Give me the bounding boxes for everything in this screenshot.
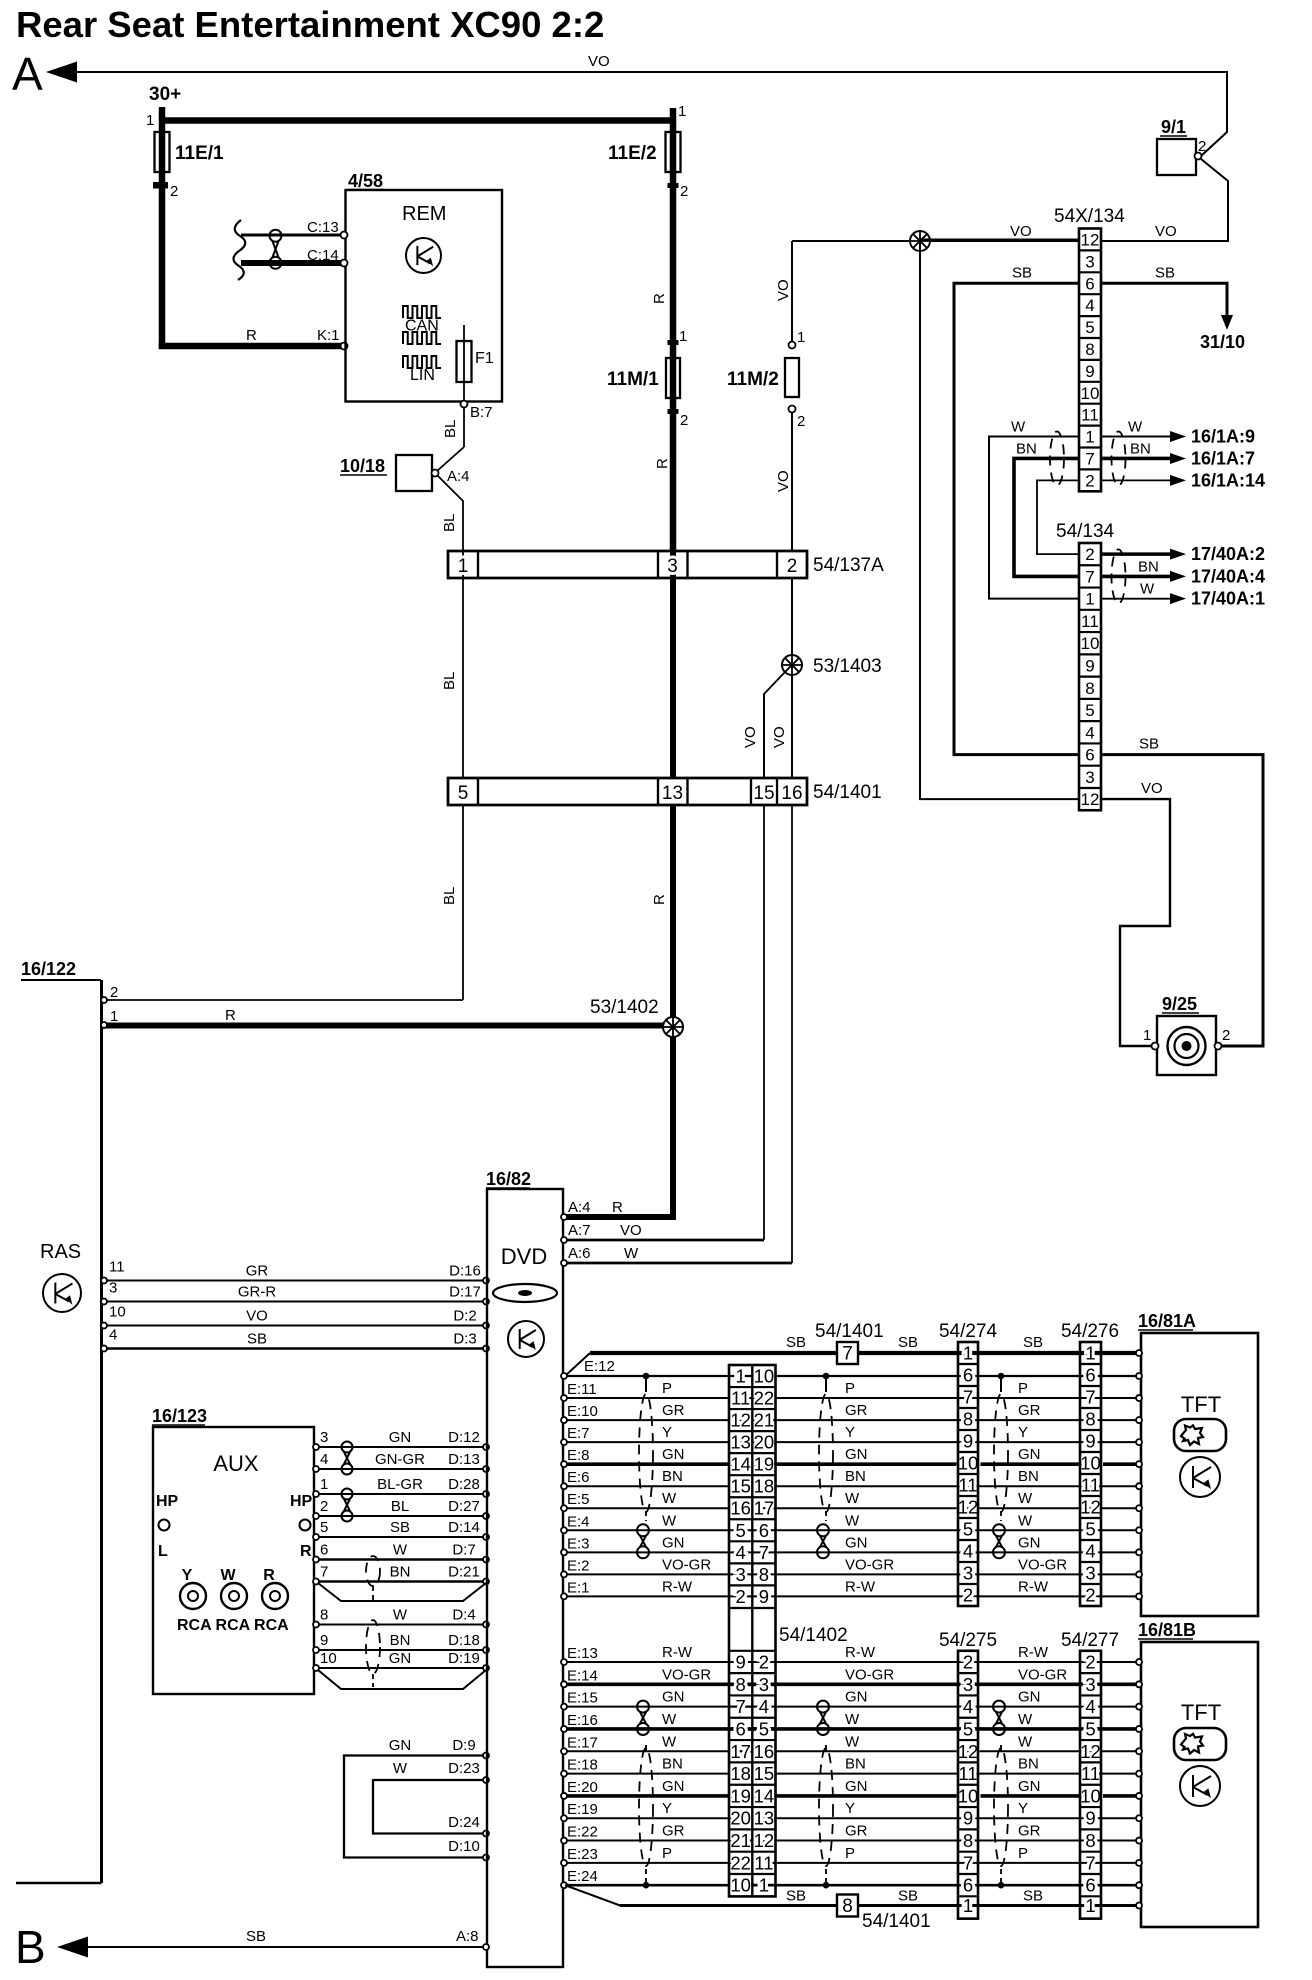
svg-text:1: 1 [458,556,469,577]
svg-text:D:27: D:27 [448,1498,480,1515]
svg-text:P: P [662,1845,672,1862]
svg-text:SB: SB [1012,264,1032,281]
svg-text:7: 7 [963,1852,973,1873]
svg-text:VO: VO [1141,780,1163,797]
svg-text:R-W: R-W [1018,1644,1049,1661]
svg-text:16/82: 16/82 [486,1169,531,1189]
svg-text:14: 14 [730,1454,751,1475]
svg-text:9: 9 [320,1632,328,1649]
svg-text:E:12: E:12 [584,1358,615,1375]
svg-text:12: 12 [1080,1497,1101,1518]
svg-text:Y: Y [1018,1800,1028,1817]
svg-text:E:20: E:20 [567,1779,598,1796]
svg-text:4: 4 [320,1451,328,1468]
svg-text:16/81B: 16/81B [1138,1620,1196,1640]
svg-text:C:14: C:14 [307,247,339,264]
svg-text:16: 16 [754,1741,775,1762]
svg-text:5: 5 [458,783,469,804]
svg-text:BL: BL [442,420,459,438]
svg-text:BN: BN [390,1564,411,1581]
svg-text:W: W [1018,1512,1033,1529]
svg-text:SB: SB [898,1334,918,1351]
svg-text:A:6: A:6 [568,1245,591,1262]
svg-text:2: 2 [1085,1585,1095,1606]
svg-text:8: 8 [759,1564,769,1585]
svg-text:E:5: E:5 [567,1491,590,1508]
svg-text:13: 13 [662,783,683,804]
svg-text:8: 8 [320,1607,328,1624]
svg-text:Y: Y [1018,1424,1028,1441]
svg-text:6: 6 [759,1520,769,1541]
svg-text:SB: SB [1023,1888,1043,1905]
svg-text:D:21: D:21 [448,1564,480,1581]
svg-text:GN-GR: GN-GR [375,1451,425,1468]
svg-text:3: 3 [963,1674,973,1695]
svg-text:22: 22 [730,1852,751,1873]
svg-text:E:1: E:1 [567,1579,590,1596]
svg-text:17: 17 [730,1741,751,1762]
svg-text:D:10: D:10 [448,1838,480,1855]
svg-text:8: 8 [963,1830,973,1851]
svg-text:A:4: A:4 [447,468,470,485]
svg-text:E:11: E:11 [567,1381,597,1398]
svg-text:Y: Y [662,1800,672,1817]
svg-text:SB: SB [1155,264,1175,281]
svg-text:GN: GN [845,1446,868,1463]
svg-text:11: 11 [1081,406,1099,425]
svg-text:54/276: 54/276 [1061,1321,1119,1342]
svg-text:4: 4 [963,1696,973,1717]
svg-text:12: 12 [1081,230,1100,249]
svg-text:REM: REM [402,203,446,225]
svg-text:3: 3 [1085,768,1094,787]
svg-text:W: W [845,1490,860,1507]
svg-text:6: 6 [1085,1875,1095,1896]
svg-text:17/40A:4: 17/40A:4 [1191,566,1265,586]
svg-text:10: 10 [1080,1453,1101,1474]
svg-text:9: 9 [736,1652,746,1673]
svg-text:VO: VO [1155,223,1177,240]
svg-text:E:10: E:10 [567,1403,598,1420]
svg-text:10: 10 [958,1453,979,1474]
svg-text:BL-GR: BL-GR [377,1476,423,1493]
svg-text:R-W: R-W [845,1578,876,1595]
svg-text:W: W [662,1512,677,1529]
svg-text:2: 2 [680,412,688,429]
svg-text:E:6: E:6 [567,1469,590,1486]
svg-text:GN: GN [389,1650,412,1667]
svg-text:E:2: E:2 [567,1557,590,1574]
svg-text:21: 21 [730,1830,751,1851]
svg-text:16/1A:14: 16/1A:14 [1191,470,1265,490]
svg-text:GR: GR [1018,1402,1041,1419]
svg-text:18: 18 [730,1763,751,1784]
svg-text:5: 5 [963,1718,973,1739]
svg-text:11: 11 [1081,1763,1100,1784]
svg-text:54/1402: 54/1402 [779,1625,848,1646]
svg-text:GN: GN [845,1689,868,1706]
svg-text:W: W [1011,419,1026,436]
svg-text:R: R [654,458,671,469]
svg-text:P: P [662,1380,672,1397]
svg-text:R: R [263,1567,275,1584]
svg-text:VO: VO [775,470,792,492]
svg-text:3: 3 [320,1429,328,1446]
svg-text:W: W [624,1245,639,1262]
svg-text:11M/1: 11M/1 [607,369,659,390]
svg-text:16/123: 16/123 [152,1406,207,1426]
svg-text:VO: VO [246,1308,268,1325]
svg-text:L: L [158,1543,168,1560]
svg-text:W: W [393,1542,408,1559]
svg-text:BN: BN [845,1756,866,1773]
svg-text:10: 10 [320,1650,337,1667]
svg-text:GR: GR [1018,1823,1041,1840]
svg-text:8: 8 [736,1674,746,1695]
svg-text:GN: GN [845,1778,868,1795]
svg-text:7: 7 [736,1696,746,1717]
svg-text:12: 12 [1081,790,1100,809]
svg-text:3: 3 [963,1563,973,1584]
svg-text:11: 11 [958,1475,977,1496]
svg-text:GN: GN [662,1778,685,1795]
svg-text:54/1401: 54/1401 [813,782,882,803]
svg-text:54/274: 54/274 [939,1321,998,1342]
svg-text:7: 7 [1085,1852,1095,1873]
svg-text:4: 4 [1085,296,1094,315]
svg-text:VO: VO [771,726,788,748]
svg-text:1: 1 [110,1008,118,1025]
svg-text:5: 5 [1085,1519,1095,1540]
svg-text:R: R [651,293,668,304]
svg-text:R: R [651,894,668,905]
svg-text:9/25: 9/25 [1162,994,1197,1014]
svg-text:11E/2: 11E/2 [608,143,657,164]
svg-text:18: 18 [754,1476,775,1497]
svg-text:3: 3 [1085,1674,1095,1695]
svg-text:5: 5 [1085,1718,1095,1739]
svg-text:13: 13 [730,1432,751,1453]
svg-text:1: 1 [1085,428,1094,447]
svg-text:W: W [662,1711,677,1728]
svg-text:BN: BN [662,1468,683,1485]
svg-text:2: 2 [787,556,798,577]
svg-text:A: A [12,48,43,100]
svg-text:GR: GR [246,1263,269,1280]
svg-text:D:12: D:12 [448,1429,480,1446]
svg-text:GN: GN [845,1534,868,1551]
svg-text:SB: SB [786,1888,806,1905]
svg-text:W: W [1128,419,1143,436]
svg-text:12: 12 [1080,1741,1101,1762]
svg-text:VO-GR: VO-GR [845,1556,894,1573]
svg-text:3: 3 [109,1280,117,1297]
svg-text:SB: SB [898,1888,918,1905]
svg-text:1: 1 [678,103,686,120]
svg-text:9: 9 [1085,362,1094,381]
svg-text:1: 1 [1085,1343,1095,1364]
svg-text:W: W [845,1711,860,1728]
svg-text:W: W [1018,1711,1033,1728]
svg-text:E:18: E:18 [567,1757,598,1774]
svg-text:9: 9 [1085,656,1094,675]
svg-text:D:24: D:24 [448,1814,480,1831]
svg-text:1: 1 [797,329,805,346]
svg-text:E:24: E:24 [567,1868,598,1885]
svg-text:A:4: A:4 [568,1199,591,1216]
svg-text:11: 11 [109,1259,125,1276]
svg-text:54/137A: 54/137A [813,555,884,576]
svg-text:20: 20 [754,1432,775,1453]
svg-text:BN: BN [1016,440,1037,457]
svg-text:BN: BN [1130,440,1151,457]
svg-text:1: 1 [320,1476,328,1493]
svg-text:17: 17 [754,1498,775,1519]
svg-text:GR: GR [845,1402,868,1419]
svg-text:W: W [393,1760,408,1777]
svg-text:BN: BN [845,1468,866,1485]
svg-text:1: 1 [736,1366,746,1387]
svg-text:D:9: D:9 [452,1737,475,1754]
svg-text:16/81A: 16/81A [1138,1311,1196,1331]
svg-text:4/58: 4/58 [348,171,383,191]
svg-text:W: W [662,1733,677,1750]
svg-text:8: 8 [1085,1830,1095,1851]
svg-text:VO: VO [620,1222,642,1239]
svg-text:4: 4 [1085,1541,1095,1562]
svg-text:6: 6 [963,1365,973,1386]
svg-text:1: 1 [679,328,687,345]
svg-text:7: 7 [1085,1387,1095,1408]
svg-text:E:15: E:15 [567,1690,598,1707]
svg-text:10: 10 [958,1785,979,1806]
svg-text:1: 1 [146,112,154,129]
svg-text:10: 10 [754,1366,775,1387]
svg-text:7: 7 [759,1542,769,1563]
svg-text:D:18: D:18 [448,1632,480,1649]
svg-text:BL: BL [391,1498,409,1515]
svg-text:LIN: LIN [410,367,435,384]
svg-text:SB: SB [390,1519,410,1536]
svg-text:6: 6 [963,1875,973,1896]
svg-text:E:17: E:17 [567,1734,598,1751]
svg-text:9: 9 [1085,1431,1095,1452]
svg-text:6: 6 [1085,746,1094,765]
svg-text:8: 8 [1085,1409,1095,1430]
svg-text:R: R [246,327,257,344]
svg-text:BL: BL [441,514,458,532]
svg-text:F1: F1 [475,350,494,367]
svg-text:SB: SB [1139,736,1159,753]
svg-text:W: W [845,1733,860,1750]
svg-text:11: 11 [1081,1475,1100,1496]
svg-text:GN: GN [1018,1778,1041,1795]
svg-text:E:3: E:3 [567,1535,590,1552]
svg-text:GN: GN [662,1446,685,1463]
svg-text:5: 5 [1085,318,1094,337]
svg-text:W: W [393,1607,408,1624]
svg-text:BL: BL [441,887,458,905]
svg-text:3: 3 [667,556,678,577]
svg-text:R: R [300,1543,312,1560]
svg-text:30+: 30+ [149,84,181,105]
svg-text:Y: Y [662,1424,672,1441]
svg-text:5: 5 [963,1519,973,1540]
svg-text:10/18: 10/18 [340,456,385,476]
svg-text:4: 4 [1085,723,1094,742]
svg-text:22: 22 [754,1388,775,1409]
svg-text:19: 19 [730,1785,751,1806]
svg-text:54/275: 54/275 [939,1630,997,1651]
svg-text:VO-GR: VO-GR [662,1556,711,1573]
svg-text:2: 2 [170,183,178,200]
svg-text:Y: Y [845,1424,855,1441]
svg-text:17/40A:2: 17/40A:2 [1191,544,1265,564]
svg-text:31/10: 31/10 [1200,332,1245,352]
svg-text:12: 12 [754,1830,775,1851]
svg-text:E:13: E:13 [567,1645,598,1662]
svg-text:9: 9 [759,1586,769,1607]
svg-text:53/1402: 53/1402 [590,997,659,1018]
svg-text:E:19: E:19 [567,1801,598,1818]
svg-text:2: 2 [1085,545,1094,564]
svg-text:15: 15 [753,783,774,804]
svg-text:Y: Y [845,1800,855,1817]
svg-text:E:4: E:4 [567,1513,590,1530]
svg-text:AUX: AUX [213,1451,259,1476]
svg-text:3: 3 [759,1674,769,1695]
svg-text:A:8: A:8 [456,1928,479,1945]
svg-text:SB: SB [1023,1334,1043,1351]
svg-text:54/134: 54/134 [1056,521,1115,542]
svg-text:C:13: C:13 [307,219,339,236]
svg-text:Y: Y [182,1567,193,1584]
svg-text:2: 2 [110,984,118,1001]
svg-text:HP: HP [156,1493,179,1510]
svg-text:BN: BN [1018,1468,1039,1485]
svg-text:E:14: E:14 [567,1667,598,1684]
svg-text:10: 10 [1081,634,1100,653]
svg-text:15: 15 [730,1476,751,1497]
svg-text:R-W: R-W [662,1644,693,1661]
svg-text:2: 2 [680,183,688,200]
svg-text:5: 5 [736,1520,746,1541]
svg-text:D:2: D:2 [453,1308,476,1325]
svg-text:D:23: D:23 [448,1760,480,1777]
svg-text:1: 1 [963,1895,973,1916]
svg-text:BN: BN [1018,1756,1039,1773]
svg-text:2: 2 [736,1586,746,1607]
svg-text:GR: GR [662,1402,685,1419]
svg-text:R: R [225,1007,236,1024]
svg-text:2: 2 [320,1498,328,1515]
svg-text:K:1: K:1 [317,327,340,344]
svg-text:P: P [845,1380,855,1397]
svg-text:54/1401: 54/1401 [815,1321,884,1342]
svg-text:4: 4 [109,1327,117,1344]
svg-text:GN: GN [1018,1446,1041,1463]
svg-text:1: 1 [963,1343,973,1364]
svg-text:9/1: 9/1 [1161,117,1186,137]
svg-text:6: 6 [736,1718,746,1739]
svg-text:17/40A:1: 17/40A:1 [1191,589,1265,609]
svg-text:D:7: D:7 [452,1542,475,1559]
svg-text:VO: VO [588,53,610,70]
svg-text:15: 15 [754,1763,775,1784]
svg-text:7: 7 [1085,449,1094,468]
svg-text:2: 2 [797,413,805,430]
svg-text:12: 12 [730,1410,751,1431]
svg-text:10: 10 [1080,1785,1101,1806]
svg-text:VO-GR: VO-GR [662,1666,711,1683]
svg-text:54/277: 54/277 [1061,1630,1119,1651]
svg-text:DVD: DVD [501,1244,547,1269]
svg-text:11E/1: 11E/1 [175,143,224,164]
svg-text:11M/2: 11M/2 [727,369,779,390]
svg-text:11: 11 [1081,612,1099,631]
svg-text:D:19: D:19 [448,1650,480,1667]
svg-text:10: 10 [1081,384,1100,403]
svg-text:GN: GN [1018,1534,1041,1551]
svg-text:VO-GR: VO-GR [1018,1556,1067,1573]
svg-text:54X/134: 54X/134 [1054,206,1125,227]
svg-text:SB: SB [247,1331,267,1348]
svg-text:GN: GN [389,1429,412,1446]
svg-text:HP: HP [290,1493,313,1510]
svg-text:2: 2 [963,1652,973,1673]
svg-text:W: W [845,1512,860,1529]
svg-text:11: 11 [731,1388,750,1409]
svg-text:2: 2 [1222,1027,1230,1044]
svg-text:4: 4 [1085,1696,1095,1717]
svg-text:1: 1 [759,1875,769,1896]
svg-text:6: 6 [1085,1365,1095,1386]
svg-text:6: 6 [320,1542,328,1559]
svg-text:D:16: D:16 [449,1263,481,1280]
svg-text:7: 7 [963,1387,973,1408]
svg-text:VO-GR: VO-GR [845,1666,894,1683]
svg-text:D:3: D:3 [453,1331,476,1348]
svg-text:E:8: E:8 [567,1447,590,1464]
svg-text:1: 1 [1085,590,1094,609]
svg-text:2: 2 [963,1585,973,1606]
svg-text:9: 9 [963,1431,973,1452]
svg-text:3: 3 [1085,1563,1095,1584]
svg-text:16/1A:9: 16/1A:9 [1191,427,1255,447]
svg-text:R-W: R-W [845,1644,876,1661]
svg-text:R: R [612,1199,623,1216]
svg-text:E:7: E:7 [567,1425,590,1442]
svg-text:1: 1 [1143,1027,1151,1044]
svg-text:D:4: D:4 [452,1607,475,1624]
svg-text:P: P [845,1845,855,1862]
svg-text:9: 9 [1085,1808,1095,1829]
svg-text:VO: VO [742,726,759,748]
svg-text:2: 2 [759,1652,769,1673]
svg-text:12: 12 [958,1741,979,1762]
svg-text:B:7: B:7 [470,404,493,421]
svg-text:19: 19 [754,1454,775,1475]
svg-text:16: 16 [730,1498,751,1519]
svg-text:7: 7 [842,1344,853,1365]
svg-text:BN: BN [662,1756,683,1773]
svg-text:Rear Seat Entertainment XC90 2: Rear Seat Entertainment XC90 2:2 [16,4,604,45]
svg-text:W: W [220,1567,236,1584]
svg-text:B: B [15,1921,46,1973]
svg-text:8: 8 [1085,679,1094,698]
svg-text:W: W [1018,1733,1033,1750]
svg-text:W: W [662,1490,677,1507]
